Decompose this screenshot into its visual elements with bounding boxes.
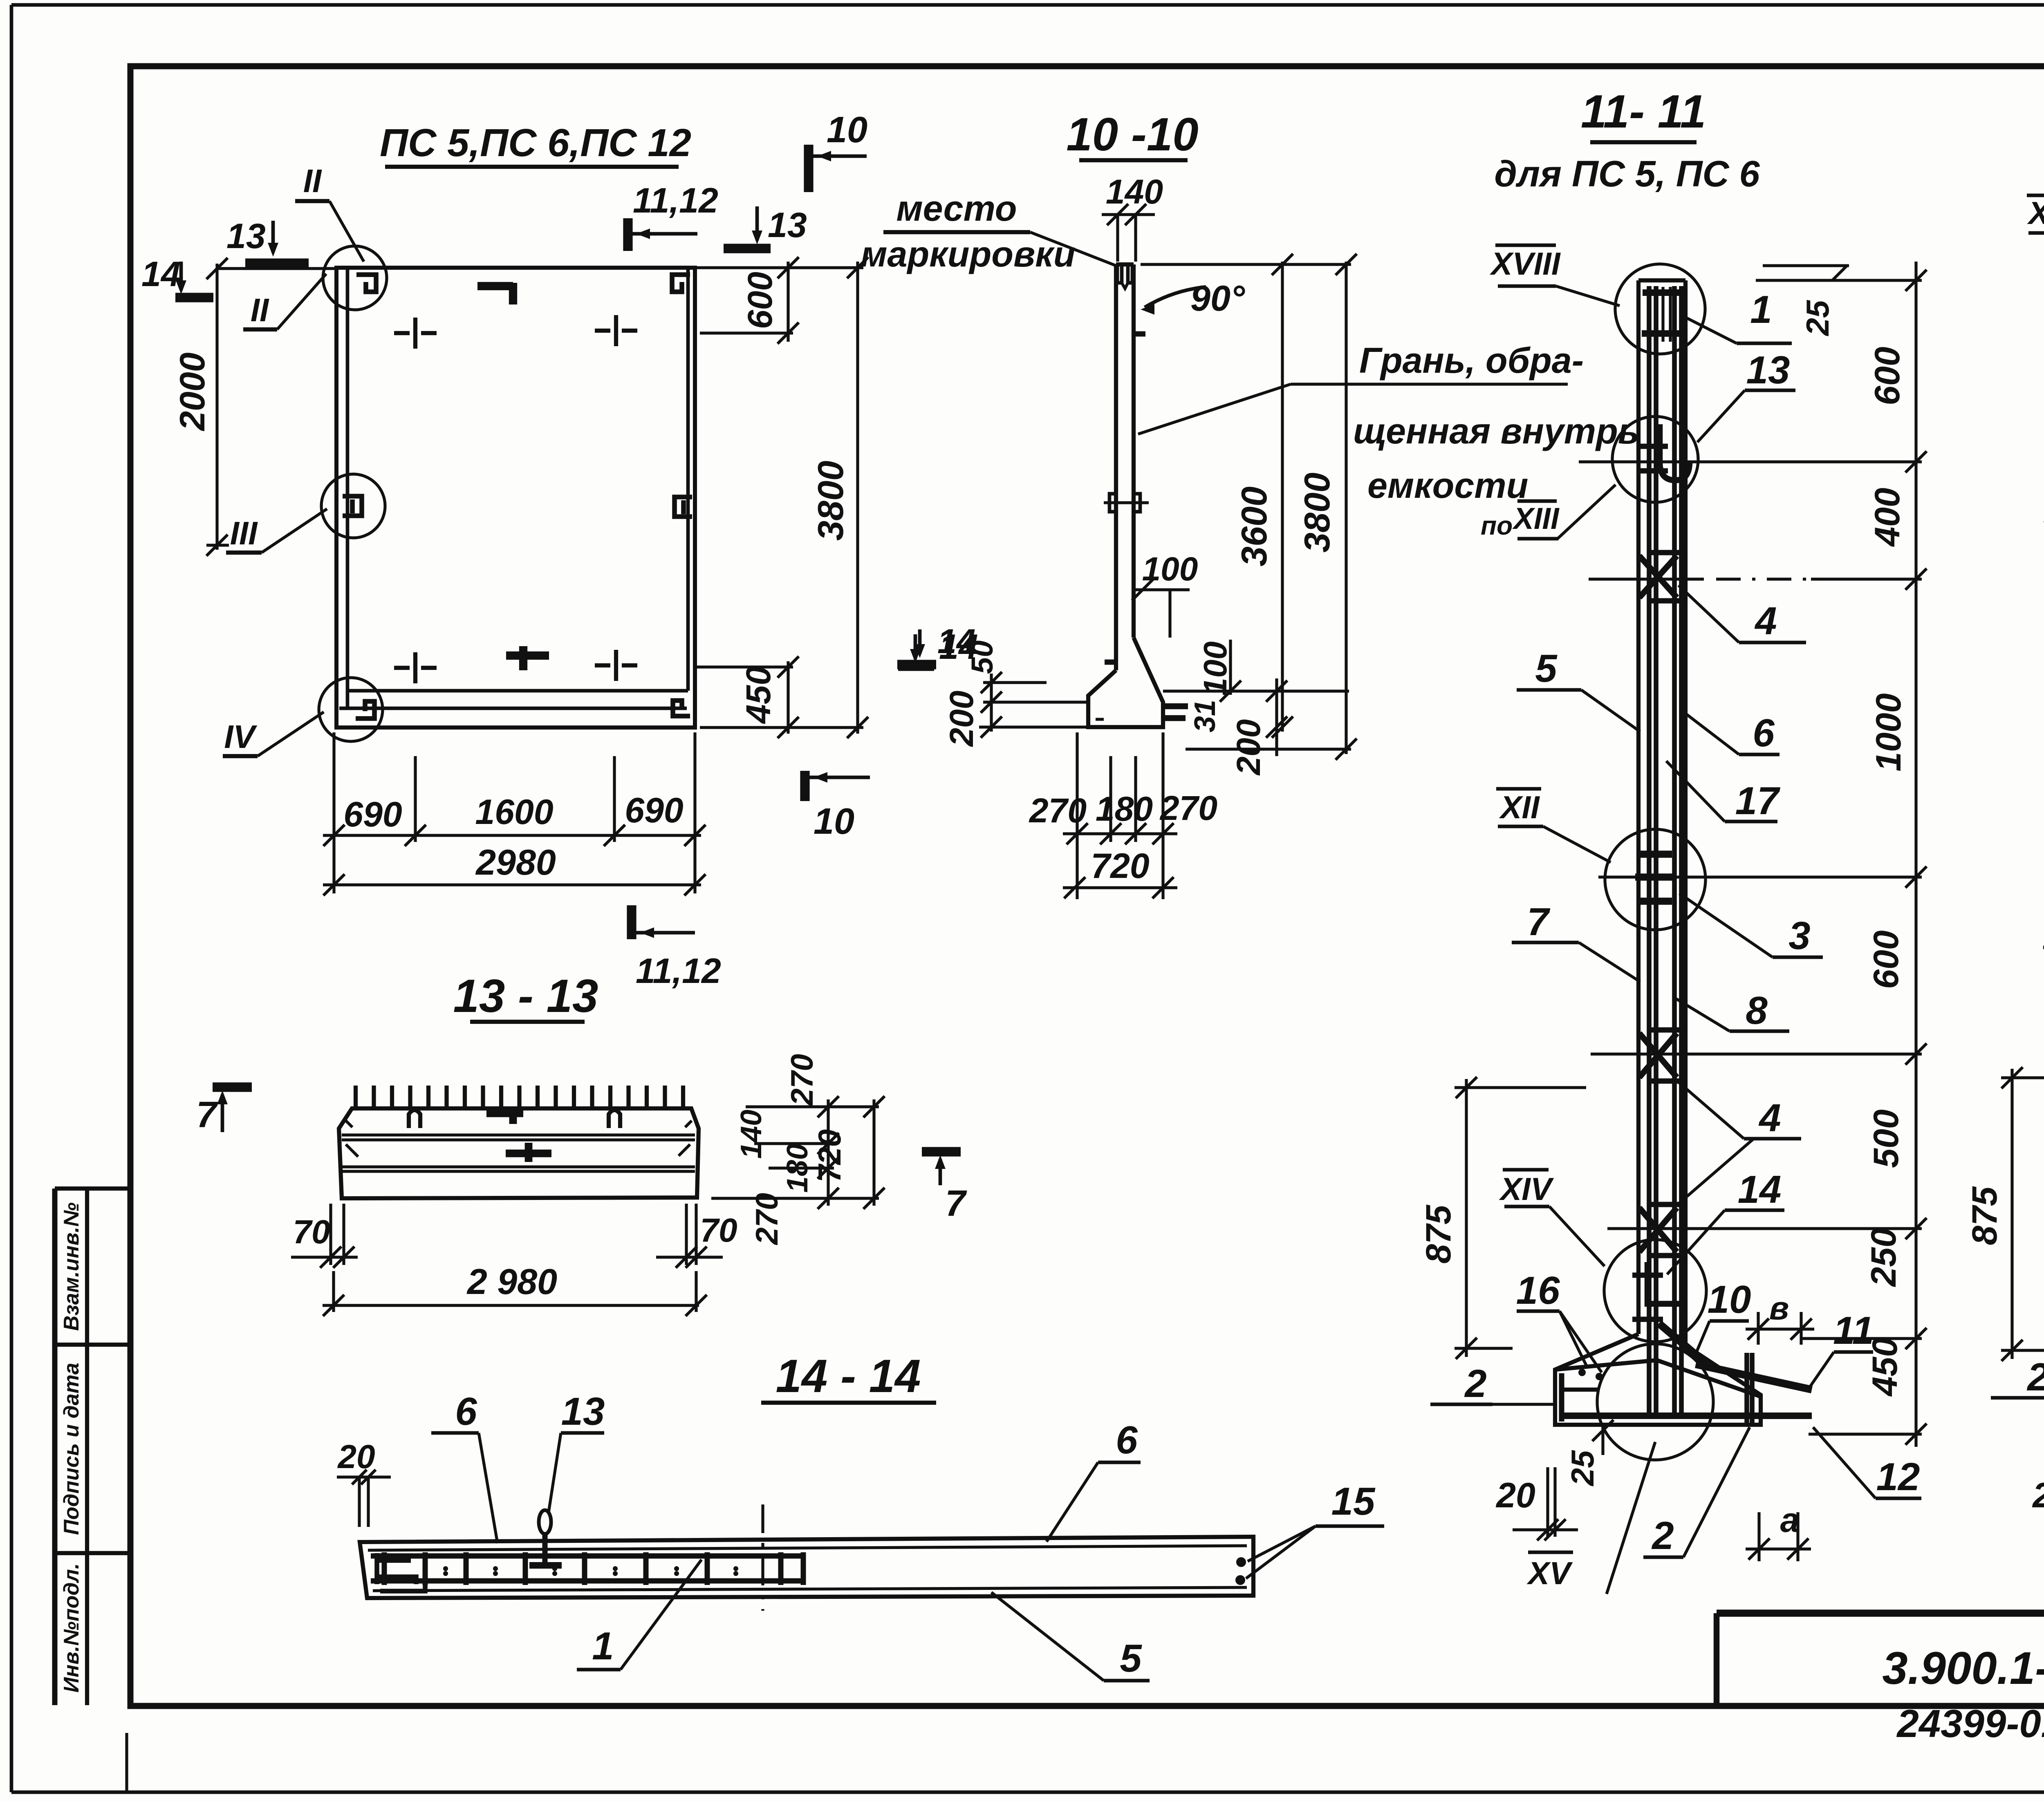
rebar stubs right <box>1163 703 1188 710</box>
svg-text:XV: XV <box>1526 1555 1573 1591</box>
svg-text:13: 13 <box>226 217 266 256</box>
svg-text:14: 14 <box>1738 1168 1782 1211</box>
footing 10-10 <box>1088 638 1163 727</box>
svg-text:11- 11: 11- 11 <box>1581 86 1706 138</box>
svg-text:90°: 90° <box>1190 278 1245 318</box>
hook detail circle (13) <box>1612 416 1698 502</box>
right dim stack 11-11 <box>1914 262 1917 1447</box>
marking notch <box>1117 266 1122 283</box>
svg-text:13: 13 <box>768 206 807 245</box>
marker 11,12 below plan <box>627 905 636 939</box>
svg-text:XVIII: XVIII <box>1489 246 1560 282</box>
left end bars <box>377 1553 425 1591</box>
hook U right <box>609 1110 620 1128</box>
rebar bottom bar <box>371 1578 804 1584</box>
svg-text:XIII: XIII <box>1512 501 1559 535</box>
svg-text:11,12: 11,12 <box>633 181 718 220</box>
center marks 13-13 <box>486 1110 523 1117</box>
wedge inner lines <box>368 1546 1247 1550</box>
dim 2980 below plan <box>323 883 701 886</box>
svg-text:8: 8 <box>1746 989 1768 1032</box>
column outline <box>1636 280 1641 1334</box>
stirrups <box>382 1552 387 1585</box>
svg-text:450: 450 <box>739 666 778 724</box>
svg-text:по: по <box>1481 511 1513 540</box>
svg-text:5: 5 <box>1535 647 1558 690</box>
hook top-left <box>356 275 376 292</box>
svg-text:1: 1 <box>1750 288 1772 331</box>
thick diagonal 11 <box>1696 1364 1812 1390</box>
svg-text:3600: 3600 <box>1234 486 1274 566</box>
hook bar <box>1660 424 1690 480</box>
svg-text:180: 180 <box>781 1144 814 1193</box>
svg-text:140: 140 <box>1106 172 1163 211</box>
svg-text:10: 10 <box>814 801 854 842</box>
wedge outline <box>360 1537 1253 1598</box>
svg-text:2980: 2980 <box>475 842 556 882</box>
svg-text:20: 20 <box>1495 1476 1535 1515</box>
lifting loop 13 <box>539 1510 551 1534</box>
hook bottom-right <box>673 701 690 716</box>
svg-text:7: 7 <box>196 1095 218 1135</box>
footing stirrup <box>1744 1353 1749 1423</box>
column 10-10 <box>1114 264 1118 670</box>
svg-text:3: 3 <box>1788 914 1810 958</box>
X splice mid <box>1639 1033 1677 1077</box>
svg-text:10: 10 <box>1708 1278 1751 1321</box>
svg-text:13: 13 <box>1746 348 1790 392</box>
svg-text:600: 600 <box>1867 930 1906 989</box>
hook top-right <box>672 275 690 292</box>
svg-text:а: а <box>1780 1501 1800 1539</box>
svg-text:ПС 5,ПС 6,ПС 12: ПС 5,ПС 6,ПС 12 <box>380 121 691 165</box>
anchor dots <box>1578 1369 1586 1376</box>
svg-text:для ПС 5, ПС 6: для ПС 5, ПС 6 <box>1494 154 1760 195</box>
svg-text:140: 140 <box>735 1110 768 1159</box>
svg-text:15: 15 <box>1331 1480 1376 1523</box>
svg-text:600: 600 <box>1868 347 1907 405</box>
bottom dims of 10-10 <box>1076 732 1078 899</box>
svg-text:в: в <box>1769 1290 1789 1326</box>
footing outline <box>1555 1334 1761 1425</box>
X splice low <box>1639 1208 1677 1252</box>
svg-text:14: 14 <box>141 255 181 294</box>
svg-text:III: III <box>230 515 258 551</box>
svg-text:II: II <box>303 163 322 199</box>
svg-text:Подпись и дата: Подпись и дата <box>60 1363 83 1535</box>
svg-text:270: 270 <box>1159 789 1217 827</box>
hook mid-left <box>343 496 362 516</box>
svg-text:25: 25 <box>1564 1450 1600 1486</box>
cross marks <box>413 318 417 349</box>
svg-text:17: 17 <box>1735 779 1781 823</box>
dims 690 1600 690 below plan <box>332 732 335 893</box>
svg-text:11,12: 11,12 <box>636 951 721 991</box>
panel inner right line <box>686 268 690 691</box>
svg-text:XII: XII <box>1499 789 1540 825</box>
svg-text:100: 100 <box>1197 641 1233 696</box>
bottom detail circle XV <box>1597 1344 1713 1460</box>
svg-text:13 - 13: 13 - 13 <box>453 970 598 1022</box>
top anchor bars <box>1647 287 1650 342</box>
svg-text:180: 180 <box>1096 790 1153 828</box>
level line mid <box>1598 875 1713 878</box>
svg-text:Инв.№подл.: Инв.№подл. <box>60 1563 83 1693</box>
svg-text:25: 25 <box>1800 300 1836 336</box>
title block <box>1717 1609 2044 1616</box>
svg-text:2: 2 <box>1651 1514 1674 1558</box>
svg-text:место: место <box>896 188 1017 228</box>
svg-text:1: 1 <box>592 1624 614 1668</box>
mid detail circle <box>1605 829 1706 930</box>
panel outline <box>336 268 695 728</box>
svg-text:XIV: XIV <box>1499 1171 1554 1207</box>
side tick left low <box>1105 660 1116 665</box>
panel inner left line <box>346 268 350 708</box>
svg-text:250: 250 <box>1864 1228 1903 1287</box>
hook bottom-left <box>356 701 374 719</box>
corner detail circle II <box>323 246 387 310</box>
svg-text:XIX: XIX <box>2027 195 2044 231</box>
svg-text:10: 10 <box>827 110 867 150</box>
hook mid-right <box>675 497 692 517</box>
svg-text:Грань, обра-: Грань, обра- <box>1359 340 1584 381</box>
svg-text:3800: 3800 <box>1297 472 1337 553</box>
svg-text:10 -10: 10 -10 <box>1066 109 1198 161</box>
svg-text:20: 20 <box>337 1438 375 1475</box>
svg-text:200: 200 <box>943 691 980 748</box>
right dims 13-13 <box>746 1105 879 1108</box>
page thin border <box>11 3 2044 7</box>
svg-text:400: 400 <box>1868 488 1907 547</box>
svg-text:5: 5 <box>1120 1636 1142 1680</box>
end dots 15 <box>1236 1557 1246 1567</box>
rebar verticals <box>1647 286 1652 1418</box>
svg-text:270: 270 <box>750 1193 784 1246</box>
lower hook circle XIV <box>1604 1240 1706 1342</box>
svg-text:200: 200 <box>1230 719 1267 776</box>
section dots <box>443 1566 448 1571</box>
svg-text:IV: IV <box>224 719 257 755</box>
panel inner bottom lines <box>347 689 688 693</box>
T mark top <box>477 282 513 290</box>
svg-text:13: 13 <box>561 1390 605 1433</box>
svg-text:24399-01 13: 24399-01 13 <box>1896 1702 2044 1746</box>
svg-text:720: 720 <box>1091 846 1150 886</box>
bar outline 13-13 <box>339 1108 699 1198</box>
side tick right <box>1134 331 1145 337</box>
footing left bars <box>1559 1373 1564 1421</box>
svg-text:690: 690 <box>343 795 402 834</box>
svg-text:емкости: емкости <box>1367 465 1528 506</box>
svg-text:450: 450 <box>1865 1337 1905 1397</box>
svg-text:500: 500 <box>1867 1109 1906 1168</box>
svg-text:6: 6 <box>1753 711 1775 755</box>
svg-text:1600: 1600 <box>475 792 553 832</box>
svg-text:16: 16 <box>1516 1269 1560 1312</box>
centerline mark <box>761 1504 764 1611</box>
svg-text:Взам.инв.№: Взам.инв.№ <box>60 1202 83 1331</box>
svg-text:4: 4 <box>1758 1096 1781 1140</box>
top detail circle <box>1615 264 1705 354</box>
thick diagonal 10 <box>1659 1323 1707 1364</box>
inner band lines <box>342 1133 695 1136</box>
svg-text:3800: 3800 <box>810 461 851 541</box>
svg-text:875: 875 <box>1419 1204 1458 1264</box>
svg-text:2 980: 2 980 <box>466 1261 557 1302</box>
svg-text:1000: 1000 <box>1869 693 1908 771</box>
svg-text:720: 720 <box>811 1129 847 1182</box>
svg-text:II: II <box>251 292 269 328</box>
svg-text:50: 50 <box>965 640 999 674</box>
svg-text:270: 270 <box>785 1054 820 1107</box>
svg-text:70: 70 <box>293 1213 330 1251</box>
svg-text:600: 600 <box>741 272 779 329</box>
hook U left <box>409 1110 420 1128</box>
svg-text:12: 12 <box>1876 1455 1920 1499</box>
svg-text:4: 4 <box>1754 599 1777 643</box>
svg-text:14 - 14: 14 - 14 <box>776 1350 921 1402</box>
svg-text:2000: 2000 <box>173 352 212 431</box>
detail circle IV <box>319 678 383 741</box>
left column boxes <box>52 1189 58 1705</box>
axis line <box>1589 578 1704 580</box>
svg-text:31: 31 <box>1189 700 1221 732</box>
footing bottom rebar 12 <box>1560 1412 1812 1419</box>
comb anchors on top <box>354 1086 358 1108</box>
svg-text:щенная внутрь: щенная внутрь <box>1353 411 1639 451</box>
marker 10 bottom of plan <box>800 771 809 801</box>
svg-text:2: 2 <box>2026 1355 2044 1399</box>
svg-text:маркировки: маркировки <box>861 234 1075 274</box>
svg-text:875: 875 <box>1965 1186 2004 1245</box>
svg-text:7: 7 <box>945 1183 967 1224</box>
svg-text:70: 70 <box>700 1212 737 1249</box>
marker 7 right <box>939 1159 942 1185</box>
svg-text:7: 7 <box>1527 900 1551 944</box>
svg-text:690: 690 <box>625 791 684 830</box>
svg-text:270: 270 <box>1029 791 1087 830</box>
svg-text:6: 6 <box>1116 1418 1138 1462</box>
end corner cuts <box>346 1144 358 1157</box>
joint notches mid <box>1109 494 1116 512</box>
detail circle III <box>321 474 385 538</box>
svg-text:2: 2 <box>1464 1362 1486 1406</box>
svg-text:20: 20 <box>2032 1476 2044 1515</box>
X splice upper <box>1639 556 1677 598</box>
svg-text:3.900.1-10.2-7 -03.00: 3.900.1-10.2-7 -03.00 <box>1882 1643 2044 1694</box>
rebar top bar <box>371 1554 804 1559</box>
svg-text:6: 6 <box>455 1390 477 1433</box>
level line at hook <box>1579 460 1744 463</box>
line below frame <box>125 1733 128 1792</box>
T mark bottom <box>506 651 549 660</box>
